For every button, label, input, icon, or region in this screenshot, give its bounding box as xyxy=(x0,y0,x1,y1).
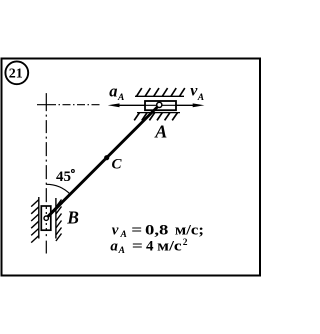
svg-text:a: a xyxy=(110,239,118,255)
svg-text:0,8: 0,8 xyxy=(145,223,168,239)
svg-text:2: 2 xyxy=(183,238,188,248)
svg-text:4: 4 xyxy=(146,239,154,255)
svg-text:A: A xyxy=(120,230,127,240)
svg-text:м/с;: м/с; xyxy=(175,223,204,239)
svg-text:A: A xyxy=(117,93,124,103)
svg-text:=: = xyxy=(132,239,143,255)
svg-text:м/с: м/с xyxy=(157,239,182,255)
svg-text:C: C xyxy=(112,157,123,173)
svg-text:a: a xyxy=(109,81,117,100)
svg-text:v: v xyxy=(112,223,119,239)
svg-text:A: A xyxy=(197,93,204,103)
svg-text:21: 21 xyxy=(9,67,23,82)
svg-text:=: = xyxy=(131,223,142,239)
svg-text:B: B xyxy=(66,208,79,228)
svg-text:A: A xyxy=(118,246,125,256)
svg-text:A: A xyxy=(154,121,167,141)
svg-text:45: 45 xyxy=(56,169,71,185)
